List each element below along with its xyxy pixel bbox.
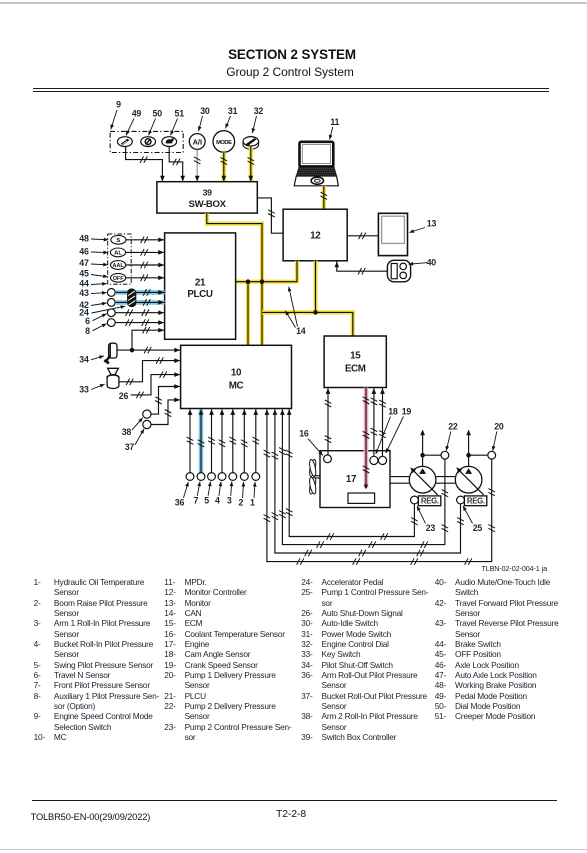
label 32: [250, 106, 263, 134]
label 24: [79, 304, 125, 317]
pump 2: [455, 466, 484, 495]
wire sensor 7 to MC: [198, 409, 205, 472]
label 4: [215, 481, 223, 505]
svg-text:14: 14: [296, 326, 306, 336]
svg-text:16: 16: [299, 429, 309, 439]
wire OFF to PLCU: [126, 275, 165, 282]
wire AAL to PLCU: [126, 262, 165, 269]
position OFF 45: [111, 273, 126, 282]
travel reverse pilot pressure sensor 43: [107, 289, 115, 297]
svg-text:40: 40: [427, 257, 437, 267]
wire 8 to PLCU: [115, 319, 164, 326]
arm 2 roll-in pilot pressure sensor 38: [143, 410, 151, 418]
position AL 46: [110, 248, 125, 257]
switch group 9 label: [109, 100, 121, 130]
label 5: [204, 481, 212, 505]
svg-text:33: 33: [79, 384, 89, 394]
svg-text:2: 2: [239, 498, 244, 508]
label 38: [122, 416, 144, 436]
dashed box 44 brake switch: [108, 234, 132, 284]
label 46: [79, 246, 108, 256]
label 19: [384, 406, 411, 453]
ECM 15: [324, 336, 386, 388]
CAN drop to MC (right): [260, 282, 264, 346]
svg-text:25: 25: [473, 523, 483, 533]
accelerator pedal 24 icon: [128, 289, 136, 307]
label 30: [197, 106, 210, 132]
key switch 33 icon: [107, 368, 119, 388]
wire S to PLCU: [126, 237, 165, 244]
svg-text:15: 15: [350, 351, 361, 362]
label 13: [409, 219, 437, 235]
cooling fan: [308, 459, 320, 495]
wire pilot shut-off to PLCU: [132, 327, 165, 350]
pump 1: [409, 466, 438, 495]
label 48: [79, 233, 108, 243]
label 18: [374, 406, 398, 454]
wire monitor controller to audio mute switch 40: [334, 262, 387, 275]
svg-text:OFF: OFF: [113, 276, 124, 282]
svg-text:AL: AL: [114, 251, 122, 257]
label 37: [125, 428, 146, 452]
switch 30 auto-idle A/I: [189, 134, 205, 150]
regulator REG pump 2: [464, 496, 486, 506]
wire to sensor 20: [469, 454, 488, 456]
monitor controller 12: [283, 209, 347, 261]
wire sensor 5 to MC: [208, 409, 215, 472]
label 20: [491, 421, 504, 451]
wire cam angle sensor 18 to ECM: [371, 388, 378, 456]
svg-text:45: 45: [79, 268, 89, 278]
crank speed sensor 19: [378, 456, 386, 464]
label 31: [224, 106, 238, 129]
svg-text:MODE: MODE: [216, 140, 232, 146]
svg-text:48: 48: [79, 233, 89, 243]
svg-text:REG.: REG.: [467, 497, 485, 506]
CAN junction node: [246, 279, 251, 284]
wire 6 to PLCU: [115, 309, 164, 316]
svg-text:10: 10: [231, 368, 242, 379]
label 40: [408, 257, 436, 267]
label 1: [250, 482, 257, 508]
CAN wire laptop to monitor controller 12: [321, 186, 328, 209]
wire 43 to PLCU: [115, 289, 164, 296]
pilot pressure sensor 3: [229, 473, 237, 481]
svg-text:39: 39: [203, 187, 212, 197]
pump 1 control pressure sensor 25: [457, 496, 465, 504]
pilot shut-off switch 34 icon: [104, 343, 117, 363]
wire switch 51 to SW-BOX: [169, 146, 185, 181]
label 7: [193, 481, 201, 505]
audio mute/one-touch idle switch 40: [387, 260, 410, 282]
wire SW-BOX to monitor controller 12: [257, 198, 283, 233]
travel N sensor 6: [107, 309, 115, 317]
wire sensor 3 to MC: [230, 409, 237, 472]
PLCU 21: [165, 233, 236, 339]
wire auto shut-down to MC: [131, 371, 181, 398]
svg-text:51: 51: [175, 109, 185, 119]
wire sensor 1 to MC: [253, 409, 260, 472]
CAN bus horizontal PLCU to monitor controller: [236, 261, 297, 282]
label 45: [79, 268, 108, 278]
wire switch 30 to SW-BOX: [194, 149, 201, 181]
wire crank speed sensor 19 to ECM: [379, 388, 386, 456]
bucket roll-out pilot pressure sensor 37: [143, 420, 151, 428]
svg-text:50: 50: [153, 109, 163, 119]
svg-text:3: 3: [227, 495, 232, 505]
label 43: [79, 288, 106, 298]
label 49: [124, 109, 141, 137]
label 25: [461, 505, 482, 533]
engine control dial 32: [243, 137, 259, 150]
label 50: [147, 109, 162, 137]
svg-text:1: 1: [250, 498, 255, 508]
monitor 13: [378, 213, 407, 255]
coolant temperature sensor 16: [324, 455, 332, 463]
svg-text:22: 22: [448, 421, 458, 431]
label 14 CAN: [284, 286, 306, 336]
wire AL to PLCU: [126, 249, 165, 256]
wire 42 to PLCU: [115, 299, 164, 306]
pilot pressure sensor 36: [186, 473, 194, 481]
engine-pump shaft: [390, 477, 455, 484]
svg-text:7: 7: [193, 495, 198, 505]
svg-text:9: 9: [116, 100, 121, 110]
svg-text:AAL: AAL: [113, 263, 125, 269]
label 42: [79, 300, 107, 310]
svg-text:23: 23: [426, 523, 436, 533]
wire monitor controller to monitor: [347, 233, 378, 240]
label 11: [328, 117, 340, 140]
pilot pressure sensor 5: [208, 473, 216, 481]
label 16: [299, 429, 324, 457]
injector harness (pink) ECM to engine: [363, 388, 370, 490]
svg-text:49: 49: [132, 109, 142, 119]
label 22: [444, 421, 458, 451]
pilot pressure sensor 4: [218, 473, 226, 481]
wire 38 to MC: [151, 384, 181, 414]
svg-text:30: 30: [200, 106, 210, 116]
CAN drop monitor controller to ECM branch: [313, 261, 317, 313]
svg-text:11: 11: [330, 117, 339, 127]
svg-text:47: 47: [79, 258, 89, 268]
wire switch 31 to SW-BOX (CAN): [221, 152, 228, 181]
wire MC to pump 2 delivery pressure sensor 20: [264, 409, 495, 565]
label 34: [79, 354, 104, 364]
wire key switch to MC: [119, 357, 181, 385]
cam angle sensor 18: [370, 456, 378, 464]
svg-text:36: 36: [175, 498, 185, 508]
engine 17: [320, 451, 390, 508]
svg-text:31: 31: [228, 106, 238, 116]
pilot pressure sensor 7: [197, 473, 205, 481]
MC 10: [181, 345, 292, 408]
switch box controller 39 SW-BOX: [157, 182, 257, 213]
CAN branch to ECM: [262, 312, 353, 336]
svg-text:13: 13: [427, 219, 437, 229]
svg-text:32: 32: [254, 106, 264, 116]
svg-text:26: 26: [119, 391, 129, 401]
svg-text:PLCU: PLCU: [187, 289, 213, 300]
svg-text:8: 8: [85, 326, 90, 336]
switch 31 power mode MODE: [213, 131, 235, 153]
position AAL 47: [111, 261, 126, 270]
svg-text:REG.: REG.: [421, 497, 439, 506]
CAN drop to MC (left): [246, 282, 250, 346]
svg-text:37: 37: [125, 442, 135, 452]
pump 1 delivery line: [420, 430, 425, 467]
svg-text:17: 17: [346, 474, 357, 485]
travel forward pilot pressure sensor 42: [107, 299, 115, 307]
svg-text:18: 18: [388, 406, 398, 416]
label 6: [85, 312, 107, 326]
switch position 50 (dial mode): [141, 137, 156, 147]
svg-text:4: 4: [215, 495, 220, 505]
label 33: [79, 382, 105, 394]
regulator REG pump 1: [418, 496, 440, 506]
svg-text:34: 34: [79, 354, 89, 364]
position S 48: [111, 235, 126, 244]
wire pilot shut-off to MC: [117, 347, 181, 354]
pilot pressure sensor 2: [240, 473, 248, 481]
wire MC to pump 1 delivery pressure sensor 22: [279, 409, 448, 548]
svg-text:MC: MC: [229, 381, 244, 392]
wire 37 to MC: [151, 398, 181, 425]
wire MC to pump 2 control pressure sensor 23: [286, 409, 418, 540]
label 2: [239, 482, 246, 508]
wire coolant temperature sensor 16 to ECM: [325, 388, 332, 455]
switch position 51 (creeper mode): [162, 137, 177, 147]
label 3: [227, 481, 234, 505]
svg-text:5: 5: [204, 495, 209, 505]
svg-text:38: 38: [122, 427, 132, 437]
label 47: [79, 258, 108, 268]
svg-text:21: 21: [195, 278, 206, 289]
label 23: [415, 505, 435, 533]
pump 2 delivery pressure sensor 20: [488, 451, 496, 459]
auxiliary 1 pilot pressure sensor 8: [107, 319, 115, 327]
svg-text:6: 6: [85, 316, 90, 326]
pilot pressure sensor 1: [252, 473, 260, 481]
switch position 49 (pedal mode): [118, 137, 133, 147]
MPDr. laptop 11: [294, 142, 338, 186]
pump 2 control pressure sensor 23: [411, 496, 419, 504]
dashed box 9 (engine speed control mode selection switch): [110, 131, 183, 152]
svg-text:43: 43: [79, 288, 89, 298]
wire sensor 4 to MC: [219, 409, 226, 472]
label 44: [79, 279, 107, 289]
svg-text:12: 12: [310, 231, 321, 242]
label 8: [85, 322, 107, 336]
CAN wire SW-BOX down to bus: [207, 213, 262, 282]
label 36: [175, 481, 190, 507]
pump 1 delivery pressure sensor 22: [441, 451, 449, 459]
label 51: [169, 109, 184, 137]
wire sensor 36 to MC: [187, 409, 194, 472]
svg-text:S: S: [116, 238, 120, 244]
svg-text:A/I: A/I: [193, 137, 202, 146]
svg-text:19: 19: [402, 406, 412, 416]
wire dial 32 to SW-BOX (CAN): [248, 147, 255, 182]
svg-text:20: 20: [494, 421, 504, 431]
pump 2 delivery line: [466, 430, 471, 467]
wire switch 49 to SW-BOX: [126, 146, 165, 181]
wire MC to pump 1 control pressure sensor 25: [272, 409, 464, 556]
svg-text:46: 46: [79, 246, 89, 256]
wire to sensor 22: [423, 454, 442, 456]
injector block: [348, 493, 375, 503]
svg-text:ECM: ECM: [345, 364, 366, 375]
wire sensor 2 to MC: [241, 409, 248, 472]
svg-text:SW-BOX: SW-BOX: [189, 199, 227, 210]
